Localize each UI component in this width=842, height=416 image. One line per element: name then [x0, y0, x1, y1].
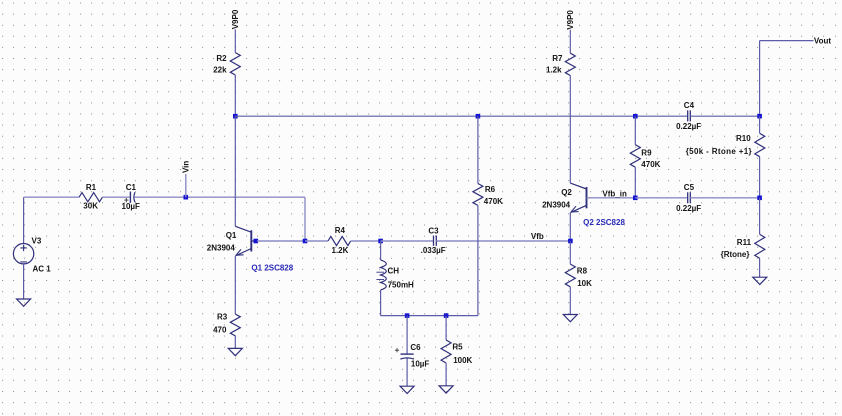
- wire Vout down to C4 node: [759, 41, 761, 117]
- C6 polarity plus mark: [395, 348, 399, 352]
- wire Q1 emitter to R3: [234, 256, 236, 314]
- wire Vout stub: [760, 40, 814, 42]
- svg-text:470K: 470K: [484, 197, 503, 206]
- wire down to Q1 collector: [234, 116, 236, 226]
- wire V3 top lead: [23, 197, 25, 243]
- svg-text:C1: C1: [126, 183, 137, 192]
- wire R1 to C1: [102, 196, 129, 198]
- wire to R11: [759, 198, 761, 235]
- resistor R5: [441, 340, 451, 363]
- svg-text:C6: C6: [410, 343, 421, 352]
- svg-text:30K: 30K: [83, 202, 98, 211]
- svg-text:R1: R1: [86, 183, 97, 192]
- wire R2 to top rail: [234, 75, 236, 116]
- svg-text:1.2k: 1.2k: [546, 65, 562, 74]
- wire R8 to ground: [569, 287, 571, 315]
- svg-text:V9P0: V9P0: [231, 9, 240, 29]
- svg-text:AC 1: AC 1: [33, 265, 52, 274]
- wire node down to CH: [380, 241, 382, 260]
- wire to R4: [305, 240, 328, 242]
- C1 polarity plus mark: [124, 198, 128, 202]
- transistor Q1 (NPN, mirrored): [235, 226, 257, 256]
- wire V3 to R1: [24, 196, 80, 198]
- resistor R8: [565, 264, 575, 287]
- svg-text:2N3904: 2N3904: [207, 243, 236, 252]
- svg-text:100K: 100K: [453, 356, 472, 365]
- svg-text:2N3904: 2N3904: [542, 200, 571, 209]
- svg-text:C4: C4: [684, 101, 695, 110]
- wire R5 to ground: [445, 363, 447, 386]
- svg-text:R4: R4: [335, 226, 346, 235]
- junction bottom rail / R5: [444, 313, 449, 318]
- svg-text:750mH: 750mH: [388, 281, 414, 290]
- ground (R5): [439, 386, 453, 393]
- ground (R3): [228, 348, 242, 355]
- svg-text:R7: R7: [552, 54, 563, 63]
- ground (V3): [17, 299, 31, 306]
- junction Q2 emitter / Vfb / R8: [568, 239, 573, 244]
- svg-text:Vfb: Vfb: [531, 232, 544, 241]
- capacitor C3: [434, 236, 437, 246]
- svg-text:V3: V3: [32, 236, 42, 245]
- svg-text:.033µF: .033µF: [421, 246, 446, 255]
- resistor R4: [328, 236, 351, 245]
- wire to R10: [759, 116, 761, 133]
- wire bend down to Q1 base row: [304, 197, 306, 241]
- junction at Q1 base: [254, 239, 259, 244]
- wire Vfb_in node to C5: [635, 197, 687, 199]
- wire V3 bottom lead: [23, 264, 25, 299]
- wire Q2 emitter down: [569, 213, 571, 241]
- svg-text:10µF: 10µF: [122, 202, 141, 211]
- capacitor C1 (polarized): [130, 192, 135, 203]
- junction at Vin label stub: [184, 195, 189, 200]
- resistor R2: [230, 53, 240, 75]
- wire node to C3: [381, 240, 433, 242]
- svg-text:R6: R6: [485, 185, 496, 194]
- wire top rail left of C4: [235, 115, 687, 117]
- svg-text:0.22µF: 0.22µF: [676, 122, 701, 131]
- junction Vin-bend / Q1 base / R4: [303, 239, 308, 244]
- svg-text:R11: R11: [737, 238, 752, 247]
- svg-text:{Rtone}: {Rtone}: [721, 250, 750, 259]
- svg-text:Vout: Vout: [814, 36, 832, 45]
- wire top rail to R9: [634, 116, 636, 145]
- wire R4 to node: [351, 240, 381, 242]
- resistor R10: [755, 133, 765, 156]
- svg-text:Q1 2SC828: Q1 2SC828: [251, 264, 293, 273]
- svg-text:Vin: Vin: [182, 161, 191, 173]
- wire CH to bottom rail: [380, 290, 382, 316]
- resistor R3: [230, 314, 240, 336]
- svg-text:22k: 22k: [213, 65, 227, 74]
- wire R11 to ground: [759, 258, 761, 277]
- capacitor C5: [688, 192, 691, 203]
- svg-text:10K: 10K: [577, 279, 592, 288]
- svg-text:R10: R10: [736, 134, 751, 143]
- svg-text:Q2: Q2: [561, 188, 572, 197]
- svg-text:V9P0: V9P0: [566, 10, 575, 30]
- wire down to R5: [445, 316, 447, 340]
- svg-text:470K: 470K: [641, 160, 660, 169]
- transistor Q2 (NPN, mirrored): [570, 183, 587, 213]
- voltage source V3: [13, 244, 33, 264]
- svg-text:Q2 2SC828: Q2 2SC828: [583, 218, 625, 227]
- capacitor C6 (polarized): [400, 354, 414, 359]
- wire C5 to right rail: [690, 197, 759, 199]
- wire R3 to ground: [234, 336, 236, 349]
- wire Q2 base to node Vfb_in: [587, 197, 636, 199]
- svg-text:Vfb_in: Vfb_in: [602, 190, 627, 199]
- svg-text:Q1: Q1: [226, 231, 237, 240]
- svg-text:C3: C3: [428, 226, 439, 235]
- junction Vfb_in / R9 / C5: [633, 196, 638, 201]
- ground (R11): [753, 277, 767, 284]
- junction R2 / top rail: [233, 114, 238, 119]
- wire down to C6: [406, 316, 408, 354]
- svg-text:1.2K: 1.2K: [332, 246, 349, 255]
- wire C3 to Q2 emitter node (net Vfb): [436, 240, 570, 242]
- resistor R6: [473, 184, 483, 206]
- svg-text:470: 470: [213, 326, 227, 335]
- junction top rail / R6: [476, 114, 481, 119]
- wire C1 to bend (node Vin): [134, 196, 305, 198]
- svg-text:R5: R5: [452, 343, 463, 352]
- resistor R9: [630, 145, 640, 168]
- svg-text:R9: R9: [641, 149, 652, 158]
- ground (R8): [563, 315, 577, 322]
- svg-text:R3: R3: [217, 313, 228, 322]
- svg-text:CH: CH: [388, 266, 400, 275]
- wire top rail to R6: [477, 116, 479, 183]
- junction bottom rail / C6: [405, 313, 410, 318]
- resistor R1: [79, 193, 102, 202]
- resistor R7: [565, 53, 575, 75]
- svg-text:R8: R8: [577, 267, 588, 276]
- svg-text:R2: R2: [216, 54, 227, 63]
- wire V9P0 to R7: [569, 30, 571, 54]
- svg-text:C5: C5: [684, 183, 695, 192]
- resistor R11: [755, 234, 765, 258]
- wire C4 to right rail: [690, 115, 759, 117]
- wire V9P0 to R2: [234, 29, 236, 52]
- svg-text:{50k - Rtone +1}: {50k - Rtone +1}: [686, 147, 752, 156]
- wire Vin label stub: [185, 174, 187, 197]
- svg-text:10µF: 10µF: [411, 360, 430, 369]
- junction R4 / CH / C3: [378, 239, 383, 244]
- inductor CH: [376, 260, 386, 290]
- wire R6 to bottom rail: [477, 205, 479, 315]
- junction C4 / R10 / Vout column: [757, 114, 762, 119]
- svg-text:0.22µF: 0.22µF: [676, 204, 701, 213]
- wire R9 to Vfb_in node: [634, 167, 636, 198]
- capacitor C4: [688, 110, 691, 121]
- junction top rail / R9: [633, 114, 638, 119]
- wire C6 to ground: [406, 358, 408, 386]
- ground (C6): [400, 386, 414, 393]
- wire bottom rail: [381, 315, 478, 317]
- junction C5 / R10 / R11: [757, 196, 762, 201]
- wire Q1 base to bend: [257, 240, 305, 242]
- wire R7 to Q2 collector: [569, 76, 571, 184]
- wire to R8: [569, 241, 571, 264]
- wire R10 to C5 node: [759, 157, 761, 198]
